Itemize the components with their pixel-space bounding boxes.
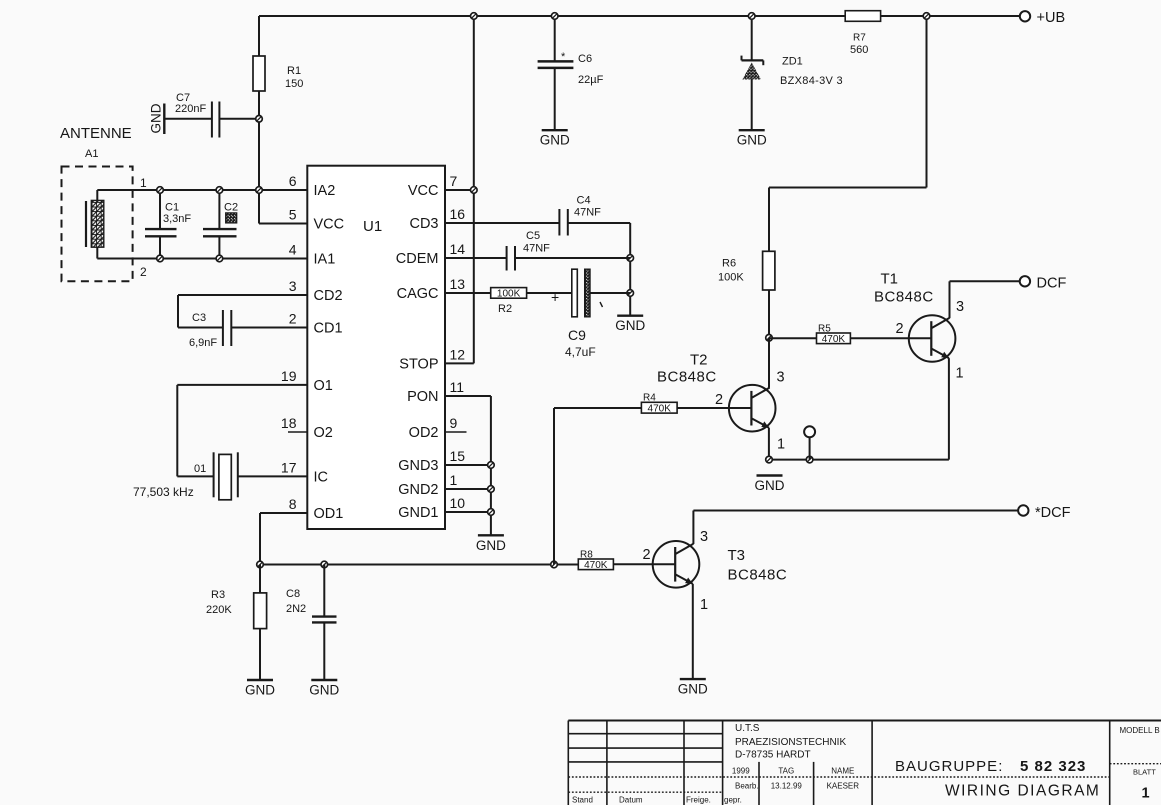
wire VCC7/STOP supply branch xyxy=(445,16,474,363)
svg-text:R1: R1 xyxy=(287,65,301,77)
svg-text:GND1: GND1 xyxy=(398,505,438,521)
svg-text:1999: 1999 xyxy=(732,767,750,776)
svg-text:BLATT: BLATT xyxy=(1133,768,1156,777)
capacitor C2 xyxy=(203,190,238,259)
svg-text:3: 3 xyxy=(956,299,964,315)
wire C4 right vertical to gnd xyxy=(629,223,631,316)
svg-text:BC848C: BC848C xyxy=(657,369,717,386)
junction CAGC node xyxy=(627,290,634,297)
svg-text:Freige.: Freige. xyxy=(686,796,711,805)
capacitor C3 xyxy=(178,295,307,349)
svg-text:U1: U1 xyxy=(363,218,382,235)
svg-text:10: 10 xyxy=(450,495,466,511)
svg-text:O2: O2 xyxy=(314,425,333,441)
wire R4 branch vertical xyxy=(553,408,555,565)
svg-text:2: 2 xyxy=(643,547,651,563)
junction bus x554 xyxy=(551,561,558,568)
wire T3 collector to *DCF xyxy=(693,511,1018,545)
resistor R5 xyxy=(769,324,931,346)
svg-text:4,7uF: 4,7uF xyxy=(565,345,596,359)
capacitor C4 xyxy=(445,195,630,236)
svg-text:2: 2 xyxy=(140,265,147,279)
pin 9 stub xyxy=(445,431,467,433)
svg-text:150: 150 xyxy=(285,78,303,90)
svg-text:CDEM: CDEM xyxy=(396,251,439,267)
wire T2 collector vertical xyxy=(768,338,770,388)
svg-text:13: 13 xyxy=(450,276,466,292)
svg-text:2: 2 xyxy=(896,321,904,337)
junction GND2 xyxy=(488,486,495,493)
wire +UB branch to R6 xyxy=(769,16,927,251)
svg-text:*: * xyxy=(561,51,566,63)
wire bus OD1/R3/C8/R8 xyxy=(260,564,578,566)
transistor T1 xyxy=(874,271,964,382)
svg-text:12: 12 xyxy=(450,346,466,362)
svg-text:MODELL B: MODELL B xyxy=(1120,726,1160,735)
U1 right pin numbers xyxy=(450,173,466,511)
svg-text:2N2: 2N2 xyxy=(286,603,306,615)
ground (T3) xyxy=(678,679,708,697)
svg-text:R6: R6 xyxy=(722,258,736,270)
svg-text:R7: R7 xyxy=(853,33,866,44)
zener diode ZD1 xyxy=(742,16,843,130)
svg-text:GND: GND xyxy=(149,103,164,133)
pin 18 stub xyxy=(288,431,307,433)
svg-text:+UB: +UB xyxy=(1037,10,1066,26)
svg-text:1: 1 xyxy=(140,176,147,190)
svg-text:U.T.S: U.T.S xyxy=(735,723,760,734)
svg-text:OD2: OD2 xyxy=(409,425,439,441)
svg-text:GND2: GND2 xyxy=(398,482,438,498)
svg-text:VCC: VCC xyxy=(408,183,439,199)
svg-text:C5: C5 xyxy=(526,230,540,242)
svg-text:6: 6 xyxy=(289,173,297,189)
svg-text:15: 15 xyxy=(450,448,466,464)
resistor R6 xyxy=(718,251,775,337)
svg-text:BZX84-3V 3: BZX84-3V 3 xyxy=(780,75,843,87)
svg-text:C8: C8 xyxy=(286,588,300,600)
ground (ZD1) xyxy=(737,130,767,148)
svg-text:KAESER: KAESER xyxy=(827,782,860,791)
svg-text:R3: R3 xyxy=(211,589,225,601)
svg-text:2: 2 xyxy=(715,392,723,408)
svg-text:CD3: CD3 xyxy=(409,216,438,232)
svg-text:14: 14 xyxy=(450,241,466,257)
svg-text:OD1: OD1 xyxy=(314,506,344,522)
svg-text:C4: C4 xyxy=(577,195,591,207)
svg-text:3: 3 xyxy=(777,370,785,386)
transistor T3 xyxy=(643,529,788,613)
ground (rotated, at C7) xyxy=(149,103,165,134)
svg-text:BC848C: BC848C xyxy=(874,289,934,306)
junction CDEM node xyxy=(627,255,634,262)
junction R1 line / antenna wire xyxy=(256,187,263,194)
crystal Q1 xyxy=(133,385,307,500)
ground (C8) xyxy=(309,680,339,698)
svg-text:1: 1 xyxy=(956,366,964,382)
svg-text:2: 2 xyxy=(289,311,297,327)
capacitor C6 xyxy=(538,16,604,130)
svg-text:A1: A1 xyxy=(85,148,98,160)
svg-text:T1: T1 xyxy=(881,271,899,288)
svg-text:22µF: 22µF xyxy=(578,74,604,86)
wire T1 emitter xyxy=(769,358,949,460)
capacitor C8 xyxy=(286,565,337,681)
U1 left pin numbers xyxy=(281,173,297,512)
svg-text:220K: 220K xyxy=(206,604,232,616)
svg-text:IA2: IA2 xyxy=(314,183,336,199)
svg-text:ANTENNE: ANTENNE xyxy=(60,125,132,142)
capacitor C9 xyxy=(551,269,630,359)
svg-text:47NF: 47NF xyxy=(574,207,601,219)
svg-text:3: 3 xyxy=(700,529,708,545)
svg-text:ZD1: ZD1 xyxy=(782,56,803,68)
svg-text:19: 19 xyxy=(281,368,297,384)
svg-text:1: 1 xyxy=(700,597,708,613)
svg-text:470K: 470K xyxy=(584,560,608,571)
svg-text:100K: 100K xyxy=(718,272,744,284)
ground (T2 emitter) xyxy=(755,476,785,494)
svg-text:13.12.99: 13.12.99 xyxy=(771,782,803,791)
wire T2 emitter xyxy=(768,428,770,460)
resistor R3 xyxy=(206,565,267,681)
svg-text:CD1: CD1 xyxy=(314,321,343,337)
svg-text:R4: R4 xyxy=(643,393,656,404)
junction top rail x474 xyxy=(471,13,478,20)
ground (C4/C5/C9) xyxy=(615,316,645,334)
svg-text:Stand: Stand xyxy=(572,796,593,805)
svg-text:WIRING DIAGRAM: WIRING DIAGRAM xyxy=(945,783,1100,800)
svg-text:DCF: DCF xyxy=(1037,276,1067,292)
junction top rail x926 xyxy=(923,13,930,20)
resistor R4 xyxy=(554,393,751,415)
wire antenna pin1 to IA2 xyxy=(97,176,307,200)
wire OD1 to bus xyxy=(260,513,307,565)
svg-text:17: 17 xyxy=(281,459,297,475)
svg-text:*DCF: *DCF xyxy=(1035,505,1071,521)
test point xyxy=(804,426,815,459)
resistor R1 xyxy=(253,16,303,224)
svg-text:D-78735 HARDT: D-78735 HARDT xyxy=(735,750,811,761)
svg-text:BAUGRUPPE:: BAUGRUPPE: xyxy=(895,758,1003,775)
svg-text:100K: 100K xyxy=(497,289,521,300)
svg-text:77,503 kHz: 77,503 kHz xyxy=(133,485,194,499)
svg-text:CAGC: CAGC xyxy=(397,286,439,302)
svg-text:1: 1 xyxy=(450,472,458,488)
svg-text:220nF: 220nF xyxy=(175,103,206,115)
junction C2 top xyxy=(216,187,223,194)
svg-text:CD2: CD2 xyxy=(314,288,343,304)
resistor R2 xyxy=(445,288,572,315)
svg-text:R5: R5 xyxy=(818,324,831,335)
svg-text:T3: T3 xyxy=(728,547,746,564)
svg-text:16: 16 xyxy=(450,206,466,222)
terminal DCF xyxy=(1020,276,1067,292)
U1 left pin names xyxy=(314,183,345,522)
svg-text:C6: C6 xyxy=(578,53,592,65)
wire pin5 VCC branch xyxy=(259,223,307,225)
svg-text:3: 3 xyxy=(289,278,297,294)
svg-text:6,9nF: 6,9nF xyxy=(189,337,217,349)
svg-text:C1: C1 xyxy=(165,202,179,214)
junction C2 bottom xyxy=(216,255,223,262)
svg-text:01: 01 xyxy=(194,463,206,475)
svg-text:4: 4 xyxy=(289,242,297,258)
title block xyxy=(568,721,1161,805)
svg-text:11: 11 xyxy=(450,379,465,395)
junction C7/R1 xyxy=(256,116,263,123)
svg-text:IA1: IA1 xyxy=(314,252,336,268)
junction bus x324 xyxy=(321,561,328,568)
svg-text:PRAEZISIONSTECHNIK: PRAEZISIONSTECHNIK xyxy=(735,737,846,748)
antenna ferrite rod xyxy=(86,200,104,247)
svg-text:R8: R8 xyxy=(580,550,593,561)
svg-text:+: + xyxy=(551,289,559,305)
terminal *DCF xyxy=(1018,505,1070,521)
capacitor C1 xyxy=(145,190,191,259)
junction bus x260 xyxy=(257,561,264,568)
svg-text:470K: 470K xyxy=(822,334,846,345)
junction top rail C6 xyxy=(551,13,558,20)
junction test point xyxy=(806,456,813,463)
ground (U1 GND pins) xyxy=(476,535,506,553)
resistor R7 xyxy=(845,11,880,56)
wire antenna pin2 to IA1 xyxy=(97,247,307,279)
U1 right pin names xyxy=(396,183,439,521)
wire top supply rail xyxy=(259,15,1020,17)
svg-text:470K: 470K xyxy=(648,403,672,414)
ground (R3) xyxy=(245,680,275,698)
svg-text:C3: C3 xyxy=(192,312,206,324)
svg-text:R2: R2 xyxy=(498,303,512,315)
svg-text:8: 8 xyxy=(289,496,297,512)
junction pin7 xyxy=(471,187,478,194)
svg-text:1: 1 xyxy=(1142,786,1150,802)
wire T3 emitter xyxy=(692,584,694,679)
svg-text:Datum: Datum xyxy=(619,796,643,805)
svg-text:5 82 323: 5 82 323 xyxy=(1020,758,1086,775)
antenna A1 (dashed outline) xyxy=(60,125,133,281)
junction C1 top xyxy=(157,187,164,194)
svg-text:VCC: VCC xyxy=(314,217,345,233)
svg-text:9: 9 xyxy=(450,415,458,431)
svg-text:STOP: STOP xyxy=(399,356,438,372)
junction C1 bottom xyxy=(157,255,164,262)
transistor T2 xyxy=(657,352,785,453)
svg-text:O1: O1 xyxy=(314,378,333,394)
junction top rail ZD1 xyxy=(748,13,755,20)
wire T1 collector to DCF xyxy=(950,281,1020,318)
svg-text:560: 560 xyxy=(850,44,868,56)
resistor R8 xyxy=(578,550,675,572)
svg-text:gepr.: gepr. xyxy=(724,796,742,805)
svg-text:C2: C2 xyxy=(224,202,238,214)
junction GND3 xyxy=(488,462,495,469)
svg-text:NAME: NAME xyxy=(831,767,854,776)
svg-text:GND3: GND3 xyxy=(398,458,438,474)
title block text xyxy=(572,723,1160,805)
junction GND1 xyxy=(488,509,495,516)
wire PON to GND chain xyxy=(445,396,491,535)
terminal +UB xyxy=(1020,10,1065,26)
op-amp U1 (IC box) xyxy=(307,166,445,529)
capacitor C5 xyxy=(445,230,630,271)
svg-text:1: 1 xyxy=(777,437,785,453)
svg-text:Bearb.: Bearb. xyxy=(735,782,759,791)
svg-text:5: 5 xyxy=(289,207,297,223)
svg-text:IC: IC xyxy=(314,469,329,485)
junction T2 emitter xyxy=(766,456,773,463)
svg-text:PON: PON xyxy=(407,389,438,405)
svg-text:18: 18 xyxy=(281,415,297,431)
junction R6/R5/T2 xyxy=(766,335,773,342)
capacitor C7 xyxy=(164,92,259,138)
svg-text:47NF: 47NF xyxy=(523,243,550,255)
svg-text:BC848C: BC848C xyxy=(728,567,788,584)
ground (C6) xyxy=(540,130,570,148)
svg-text:T2: T2 xyxy=(690,352,708,369)
svg-text:7: 7 xyxy=(450,173,458,189)
svg-text:3,3nF: 3,3nF xyxy=(163,213,191,225)
svg-text:C9: C9 xyxy=(568,327,586,343)
svg-text:TAG: TAG xyxy=(778,767,794,776)
